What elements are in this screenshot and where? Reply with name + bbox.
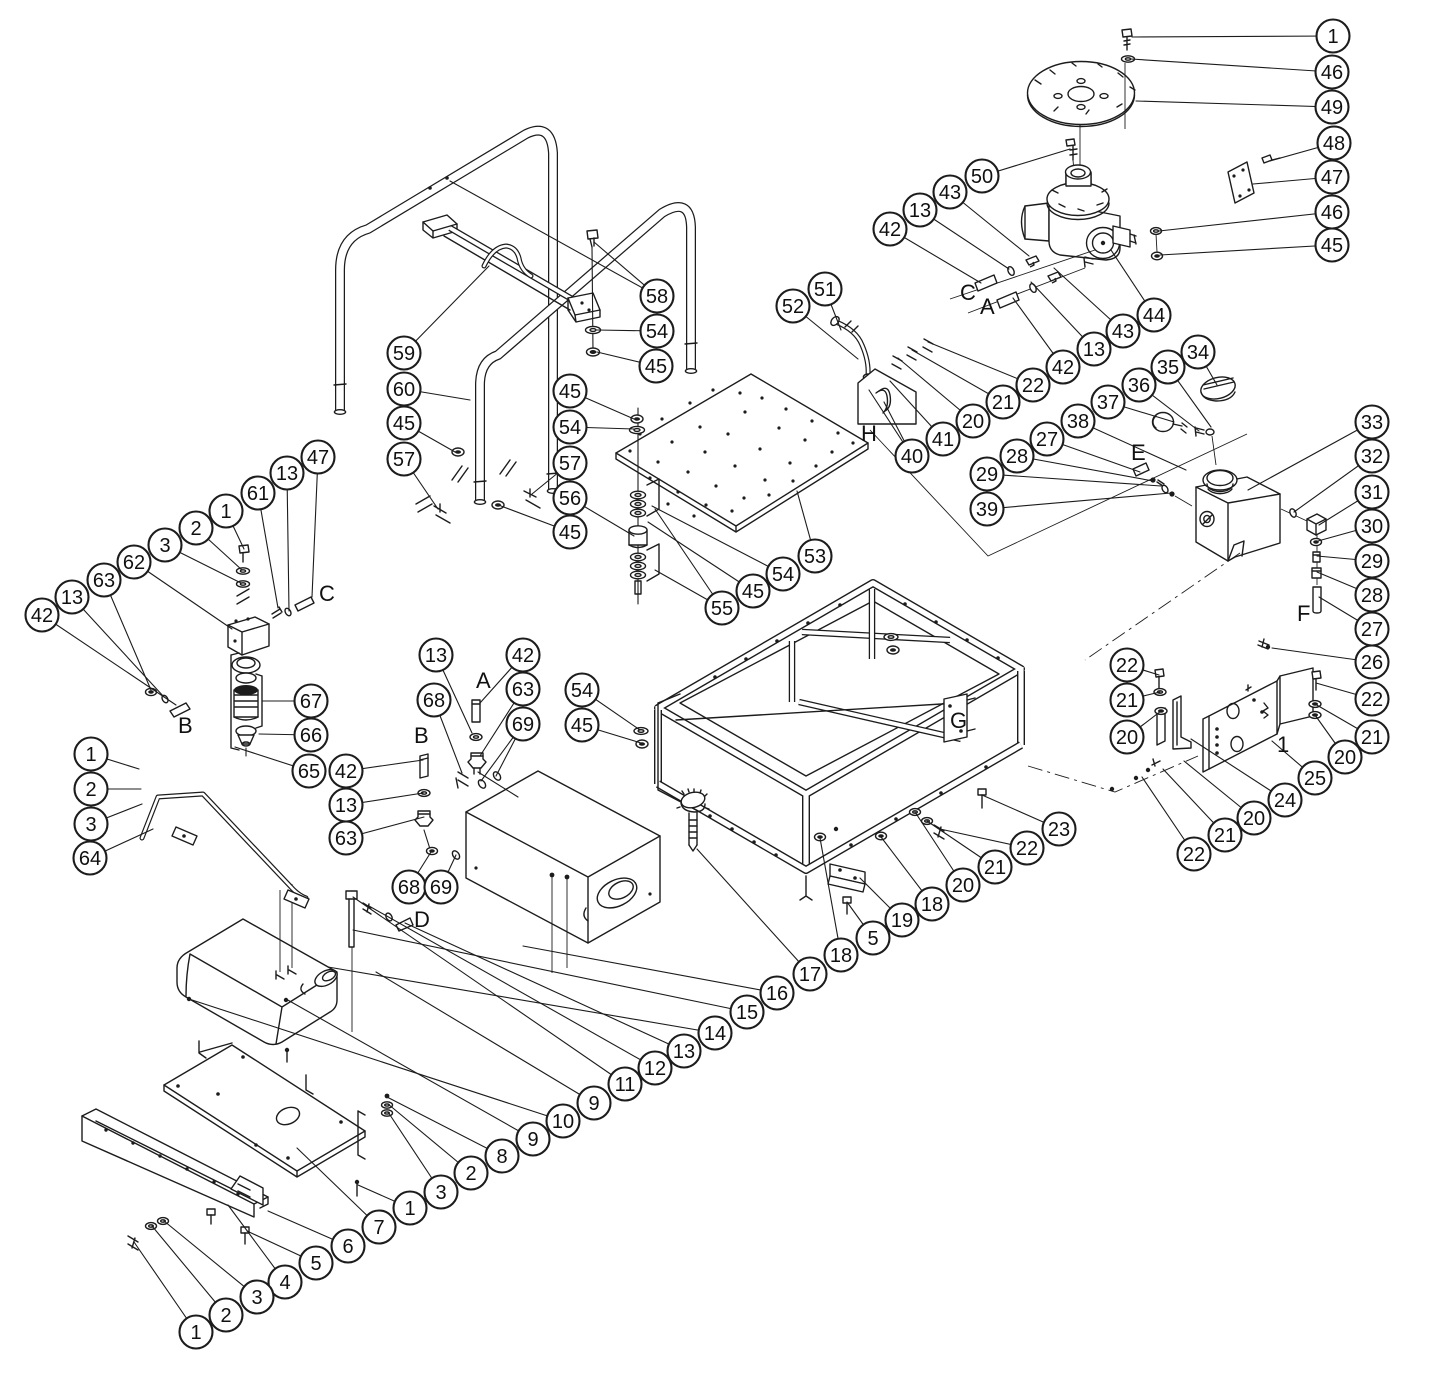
machine screw above disc (item 1) <box>1122 29 1132 50</box>
svg-text:28: 28 <box>1361 585 1383 607</box>
svg-text:13: 13 <box>673 1041 695 1063</box>
svg-text:54: 54 <box>772 564 794 586</box>
callout balloon 38 <box>1062 405 1095 438</box>
callout balloon 1 <box>394 1192 427 1225</box>
callout balloon 13 <box>271 457 304 490</box>
mounting plate G on frame <box>944 694 975 742</box>
callout balloon 21 <box>979 851 1012 884</box>
svg-text:1: 1 <box>85 744 96 766</box>
callout balloon 9 <box>517 1123 550 1156</box>
callout balloon 68 <box>393 871 426 904</box>
svg-text:68: 68 <box>398 877 420 899</box>
callout balloon 63 <box>88 564 121 597</box>
callout balloon 26 <box>1356 646 1389 679</box>
svg-text:10: 10 <box>552 1111 574 1133</box>
svg-text:B: B <box>178 713 193 738</box>
svg-text:22: 22 <box>1016 838 1038 860</box>
handle bar tube U2 (front loop) <box>474 207 697 504</box>
breather diaphragm (item 37) <box>1153 413 1188 434</box>
callout balloon 21 <box>1111 684 1144 717</box>
svg-text:43: 43 <box>1112 321 1134 343</box>
callout balloon 42 <box>507 639 540 672</box>
control panel assembly (item 25) <box>1203 668 1313 772</box>
svg-text:58: 58 <box>646 286 668 308</box>
plate hardware bottom left (items 1-5) <box>128 997 393 1250</box>
callout balloon 25 <box>1299 762 1332 795</box>
callout balloon 57 <box>554 447 587 480</box>
fuel tank (dark small tank bottom left) <box>177 919 340 1045</box>
callout balloon 63 <box>330 822 363 855</box>
svg-text:46: 46 <box>1321 202 1343 224</box>
callout balloon 54 <box>767 558 800 591</box>
callout balloon 14 <box>699 1017 732 1050</box>
svg-text:E: E <box>1131 440 1146 465</box>
callout balloon 2 <box>455 1157 488 1190</box>
svg-text:21: 21 <box>1361 727 1383 749</box>
svg-text:45: 45 <box>645 356 667 378</box>
callout balloon 43 <box>1107 315 1140 348</box>
callout balloon 53 <box>799 540 832 573</box>
callout balloon 4 <box>269 1266 302 1299</box>
callout balloon 58 <box>641 280 674 313</box>
svg-text:5: 5 <box>867 928 878 950</box>
o-ring and nut right of pump (items 46,45) <box>1151 228 1163 260</box>
callout balloon 40 <box>896 440 929 473</box>
svg-text:22: 22 <box>1183 844 1205 866</box>
svg-text:18: 18 <box>830 945 852 967</box>
svg-text:34: 34 <box>1187 342 1209 364</box>
svg-text:42: 42 <box>31 605 53 627</box>
callout balloon 2 <box>75 773 108 806</box>
callout balloon 2 <box>210 1299 243 1332</box>
svg-text:6: 6 <box>342 1236 353 1258</box>
svg-text:45: 45 <box>742 581 764 603</box>
svg-text:57: 57 <box>559 453 581 475</box>
callout balloon 33 <box>1356 406 1389 439</box>
svg-text:55: 55 <box>711 598 733 620</box>
svg-text:3: 3 <box>85 814 96 836</box>
long alignment lines below pump area <box>870 430 1247 556</box>
oil reservoir tank (item 33) <box>1196 470 1280 561</box>
callout balloon 45 <box>388 407 421 440</box>
callout balloon 46 <box>1316 56 1349 89</box>
svg-text:3: 3 <box>435 1182 446 1204</box>
callout balloon 13 <box>330 789 363 822</box>
callout balloon 13 <box>56 581 89 614</box>
callout balloon 61 <box>242 477 275 510</box>
callout balloon 3 <box>425 1176 458 1209</box>
svg-text:27: 27 <box>1036 429 1058 451</box>
callout balloon 6 <box>332 1230 365 1263</box>
callout balloon 20 <box>1238 802 1271 835</box>
svg-text:61: 61 <box>247 483 269 505</box>
callout balloon 20 <box>1111 721 1144 754</box>
svg-text:54: 54 <box>646 321 668 343</box>
callout balloon 45 <box>554 516 587 549</box>
svg-text:1: 1 <box>220 501 231 523</box>
svg-text:20: 20 <box>1334 747 1356 769</box>
svg-text:26: 26 <box>1361 652 1383 674</box>
svg-text:49: 49 <box>1321 97 1343 119</box>
svg-text:C: C <box>960 280 976 305</box>
callout balloon 12 <box>639 1052 672 1085</box>
callout balloon 24 <box>1269 784 1302 817</box>
callout balloon 22 <box>1178 838 1211 871</box>
callout balloon 17 <box>794 958 827 991</box>
svg-text:1: 1 <box>1277 732 1289 757</box>
svg-text:22: 22 <box>1116 655 1138 677</box>
cross bar assembly (item 59) with end channel brackets <box>423 215 600 322</box>
svg-text:2: 2 <box>85 779 96 801</box>
svg-text:67: 67 <box>300 691 322 713</box>
callout balloon 28 <box>1001 440 1034 473</box>
angle rail bracket (item 6) <box>82 1109 268 1217</box>
svg-text:2: 2 <box>190 518 201 540</box>
callout balloon 16 <box>761 977 794 1010</box>
svg-text:66: 66 <box>300 725 322 747</box>
svg-text:7: 7 <box>373 1217 384 1239</box>
callout balloon 20 <box>947 869 980 902</box>
svg-text:18: 18 <box>921 894 943 916</box>
svg-text:60: 60 <box>393 379 415 401</box>
callout balloon 51 <box>809 273 842 306</box>
callout balloon 47 <box>302 441 335 474</box>
svg-text:11: 11 <box>615 1074 636 1096</box>
svg-text:20: 20 <box>962 411 984 433</box>
svg-text:54: 54 <box>571 680 593 702</box>
callout balloon 22 <box>1356 683 1389 716</box>
svg-text:56: 56 <box>559 488 581 510</box>
callout balloon 67 <box>295 685 328 718</box>
callout balloon 19 <box>886 904 919 937</box>
svg-text:63: 63 <box>335 828 357 850</box>
svg-text:39: 39 <box>976 499 998 521</box>
svg-text:20: 20 <box>1116 727 1138 749</box>
callout balloon 5 <box>300 1247 333 1280</box>
hose stub C (top left) <box>295 597 314 611</box>
svg-text:47: 47 <box>1321 167 1343 189</box>
svg-text:29: 29 <box>1361 551 1383 573</box>
perforated deck plate (item 53) <box>616 374 868 532</box>
callout balloon 13 <box>668 1035 701 1068</box>
callout balloon 45 <box>554 375 587 408</box>
svg-text:F: F <box>1297 601 1310 626</box>
callout balloon 55 <box>706 592 739 625</box>
callout balloon 50 <box>966 160 999 193</box>
svg-text:37: 37 <box>1097 392 1119 414</box>
main frame weldment <box>658 583 1021 870</box>
callout balloon 18 <box>825 939 858 972</box>
svg-text:9: 9 <box>588 1093 599 1115</box>
hydraulic hose stubs C and A with fittings (items 42,13,43) <box>950 250 1095 313</box>
port letter labels <box>178 280 1310 932</box>
svg-text:9: 9 <box>527 1129 538 1151</box>
frame mounting hardware (items 23,22,21,20,18) <box>800 789 986 900</box>
svg-text:22: 22 <box>1022 375 1044 397</box>
svg-text:22: 22 <box>1361 689 1383 711</box>
callout balloon 54 <box>566 674 599 707</box>
svg-text:21: 21 <box>984 857 1006 879</box>
svg-text:13: 13 <box>276 463 298 485</box>
svg-text:A: A <box>980 294 995 319</box>
callout balloon 59 <box>388 337 421 370</box>
suction filter assembly (items 65,66,67) <box>231 653 262 756</box>
svg-text:69: 69 <box>512 714 534 736</box>
svg-text:35: 35 <box>1157 357 1179 379</box>
callout balloon 47 <box>1316 161 1349 194</box>
callout balloon 54 <box>554 411 587 444</box>
pump / gearbox assembly (item 44) <box>1022 139 1137 267</box>
callout balloon 9 <box>578 1087 611 1120</box>
svg-text:2: 2 <box>220 1305 231 1327</box>
svg-text:5: 5 <box>310 1253 321 1275</box>
svg-text:45: 45 <box>393 413 415 435</box>
svg-text:53: 53 <box>804 546 826 568</box>
svg-text:68: 68 <box>423 690 445 712</box>
breather / fitting group above fuel tank: bolt with washers (items 1,2,3) <box>237 545 250 604</box>
svg-text:25: 25 <box>1304 768 1326 790</box>
callout balloon 20 <box>1329 741 1362 774</box>
svg-text:29: 29 <box>976 464 998 486</box>
callout balloon 11 <box>609 1068 642 1101</box>
svg-text:40: 40 <box>901 446 923 468</box>
svg-text:50: 50 <box>971 166 993 188</box>
callout balloon 8 <box>486 1140 519 1173</box>
svg-text:2: 2 <box>465 1163 476 1185</box>
svg-text:27: 27 <box>1361 619 1383 641</box>
svg-text:14: 14 <box>704 1023 726 1045</box>
svg-text:28: 28 <box>1006 446 1028 468</box>
svg-text:8: 8 <box>496 1146 507 1168</box>
callout balloon 37 <box>1092 386 1125 419</box>
callout balloon 10 <box>547 1105 580 1138</box>
svg-text:65: 65 <box>298 761 320 783</box>
svg-text:33: 33 <box>1361 412 1383 434</box>
callout balloon 18 <box>916 888 949 921</box>
callout balloon 30 <box>1356 510 1389 543</box>
svg-text:1: 1 <box>1327 26 1338 48</box>
svg-text:21: 21 <box>1116 690 1138 712</box>
svg-text:48: 48 <box>1323 133 1345 155</box>
svg-text:30: 30 <box>1361 516 1383 538</box>
callout balloon 1 <box>1317 20 1350 53</box>
panel mounting brackets (item 24) <box>1157 696 1191 749</box>
svg-text:45: 45 <box>571 715 593 737</box>
callout balloon 15 <box>731 996 764 1029</box>
callout balloon 13 <box>904 194 937 227</box>
svg-text:1: 1 <box>190 1322 201 1344</box>
callout balloon 20 <box>957 405 990 438</box>
callout balloon 42 <box>26 599 59 632</box>
svg-text:45: 45 <box>559 522 581 544</box>
svg-text:24: 24 <box>1274 790 1296 812</box>
svg-text:45: 45 <box>1321 235 1343 257</box>
svg-text:32: 32 <box>1361 446 1383 468</box>
fitting group A (items 42,13,63,68,69) above tank <box>456 700 518 797</box>
svg-text:H: H <box>861 421 877 446</box>
svg-text:A: A <box>476 668 491 693</box>
alignment lines above fuel tank <box>280 884 292 972</box>
svg-text:44: 44 <box>1143 305 1165 327</box>
callout balloon 54 <box>641 315 674 348</box>
svg-text:54: 54 <box>559 417 581 439</box>
callout balloon 5 <box>857 922 890 955</box>
svg-text:21: 21 <box>1214 825 1236 847</box>
callout balloon 69 <box>425 871 458 904</box>
callout balloon 41 <box>927 423 960 456</box>
callout balloon 49 <box>1316 91 1349 124</box>
callout balloon 42 <box>330 755 363 788</box>
callout balloon 31 <box>1356 476 1389 509</box>
callout balloon 29 <box>971 458 1004 491</box>
svg-text:3: 3 <box>251 1287 262 1309</box>
callout balloon 52 <box>777 290 810 323</box>
svg-text:45: 45 <box>559 381 581 403</box>
battery hold hose (items 51,52) <box>829 315 872 380</box>
svg-text:31: 31 <box>1361 482 1383 504</box>
svg-text:D: D <box>414 907 430 932</box>
hose stub B (left) <box>146 688 191 717</box>
callout balloon 28 <box>1356 579 1389 612</box>
callout balloon 60 <box>388 373 421 406</box>
callout balloon 56 <box>554 482 587 515</box>
callout balloon 21 <box>1356 721 1389 754</box>
foot hardware of handle bars: nuts and screws (items 45/57) <box>416 448 574 523</box>
callout balloon 42 <box>1047 351 1080 384</box>
washers / nut right of fitting group (items 54,45) <box>634 694 700 812</box>
callout balloon 45 <box>640 350 673 383</box>
svg-text:63: 63 <box>512 679 534 701</box>
tank hold-down strap (item 64) <box>142 794 309 908</box>
callout balloon 22 <box>1017 369 1050 402</box>
callout balloon 23 <box>1043 813 1076 846</box>
callout balloon 7 <box>363 1211 396 1244</box>
svg-text:41: 41 <box>932 429 954 451</box>
callout balloon 39 <box>971 493 1004 526</box>
callout balloon 27 <box>1356 613 1389 646</box>
svg-text:42: 42 <box>512 645 534 667</box>
valve parts row E (items 27,28,29,39) <box>1133 463 1192 506</box>
callout balloon 34 <box>1182 336 1215 369</box>
small mount plate (items 47,48) top right <box>1228 155 1280 203</box>
panel hardware: screws and washers (items 26,22,21,20) <box>1110 639 1321 791</box>
callout balloon 64 <box>74 842 107 875</box>
bolt / washer / nut column (items 58,54,45) <box>586 230 601 356</box>
svg-text:42: 42 <box>1052 357 1074 379</box>
svg-text:20: 20 <box>1243 808 1265 830</box>
callout balloon 1 <box>180 1316 213 1349</box>
callout balloon 22 <box>1111 649 1144 682</box>
svg-text:36: 36 <box>1128 375 1150 397</box>
svg-text:16: 16 <box>766 983 788 1005</box>
callout balloon 46 <box>1316 196 1349 229</box>
callout balloon 32 <box>1356 440 1389 473</box>
callout balloon 3 <box>75 808 108 841</box>
svg-text:23: 23 <box>1048 819 1070 841</box>
svg-text:42: 42 <box>335 761 357 783</box>
bracket plate H with hose (items 40,41) <box>858 339 933 424</box>
callout balloon 43 <box>934 176 967 209</box>
fitting group B (items 42,13,63) above tank left <box>415 754 461 860</box>
svg-text:47: 47 <box>307 447 329 469</box>
svg-text:C: C <box>319 581 335 606</box>
handle bar tube U1 (items 59/60 rear loop) <box>334 131 559 494</box>
svg-text:64: 64 <box>79 848 101 870</box>
callout balloon 3 <box>149 529 182 562</box>
junction box (item 62) <box>228 617 269 655</box>
alignment lines below tank <box>552 877 567 973</box>
svg-text:13: 13 <box>1083 339 1105 361</box>
callout balloon 66 <box>295 719 328 752</box>
svg-text:69: 69 <box>430 877 452 899</box>
svg-text:21: 21 <box>992 392 1014 414</box>
flat washer (item 46) <box>1122 56 1135 62</box>
callout balloon 69 <box>507 708 540 741</box>
callout balloon 1 <box>210 495 243 528</box>
svg-text:42: 42 <box>879 219 901 241</box>
callout balloon 13 <box>1078 333 1111 366</box>
svg-text:63: 63 <box>93 570 115 592</box>
callout balloon 45 <box>566 709 599 742</box>
svg-text:15: 15 <box>736 1002 758 1024</box>
svg-text:62: 62 <box>123 552 145 574</box>
callout balloon 68 <box>418 684 451 717</box>
svg-text:52: 52 <box>782 296 804 318</box>
mounting plate (item 7) <box>164 1041 365 1177</box>
svg-text:12: 12 <box>644 1058 666 1080</box>
motor mount disc plate (item 49) <box>1028 62 1136 167</box>
svg-text:38: 38 <box>1067 411 1089 433</box>
svg-text:B: B <box>414 723 429 748</box>
svg-text:4: 4 <box>279 1272 290 1294</box>
spacer block (item 19) with screws <box>828 864 865 914</box>
svg-text:57: 57 <box>393 449 415 471</box>
callout balloon 45 <box>1316 229 1349 262</box>
svg-text:13: 13 <box>425 645 447 667</box>
callout balloon 21 <box>1209 819 1242 852</box>
svg-text:19: 19 <box>891 910 913 932</box>
callout balloon 36 <box>1123 369 1156 402</box>
callout balloon 57 <box>388 443 421 476</box>
svg-text:46: 46 <box>1321 62 1343 84</box>
callout balloon 62 <box>118 546 151 579</box>
svg-text:51: 51 <box>814 279 836 301</box>
callout balloon 42 <box>874 213 907 246</box>
svg-text:20: 20 <box>952 875 974 897</box>
svg-text:1: 1 <box>404 1198 415 1220</box>
callout balloon 27 <box>1031 423 1064 456</box>
svg-text:59: 59 <box>393 343 415 365</box>
dash-dot reference lines <box>1085 553 1240 660</box>
callout balloon 65 <box>293 755 326 788</box>
callout balloon 21 <box>987 386 1020 419</box>
long rod / fitting D group (items 11,12,13,15) <box>346 891 413 1032</box>
svg-text:3: 3 <box>159 535 170 557</box>
callout balloon 3 <box>241 1281 274 1314</box>
svg-text:17: 17 <box>799 964 821 986</box>
callout balloon 45 <box>737 575 770 608</box>
reservoir cap (item 34) <box>1198 374 1237 403</box>
svg-text:G: G <box>950 708 967 733</box>
filler cap / dipstick (item 17) <box>677 789 709 851</box>
svg-text:43: 43 <box>939 182 961 204</box>
callout balloon 2 <box>180 512 213 545</box>
elbow fitting (item 61) and o-ring (item 13) <box>272 607 282 618</box>
vibration isolator stack (items 55/56 with washers 45/54) <box>629 408 659 604</box>
callout balloon 48 <box>1318 127 1351 160</box>
elbow, block and fittings right of reservoir (items 32,31,30,29,28,27 and tube F) <box>1281 508 1326 613</box>
callout balloon 44 <box>1138 299 1171 332</box>
